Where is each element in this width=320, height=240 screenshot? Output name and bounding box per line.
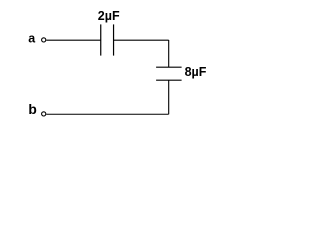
svg-text:b: b <box>28 102 36 117</box>
wire C2 down to bottom <box>168 80 170 114</box>
svg-text:a: a <box>28 31 36 45</box>
capacitor C1 left plate <box>100 24 102 55</box>
terminal b <box>42 112 46 116</box>
capacitor C1 right plate <box>113 24 115 55</box>
wire C1 to corner <box>114 39 169 41</box>
bottom wire to b <box>46 113 168 115</box>
wire corner down to C2 <box>168 40 170 67</box>
svg-text:2µF: 2µF <box>98 9 120 23</box>
terminal a <box>42 38 46 42</box>
capacitor C2 top plate <box>156 66 182 68</box>
capacitor C2 bottom plate <box>156 79 182 81</box>
wire a to C1 <box>46 39 100 41</box>
svg-text:8µF: 8µF <box>185 65 207 79</box>
